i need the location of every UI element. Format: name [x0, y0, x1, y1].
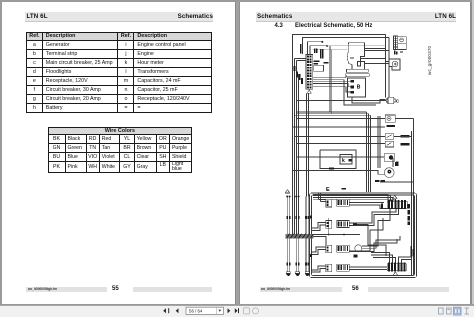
terminal strip b: [306, 55, 313, 94]
right page footer: [260, 287, 342, 292]
transformer row 4: [326, 264, 350, 272]
circuit breaker f: [385, 134, 409, 140]
wire: row1 riser: [319, 193, 321, 202]
horn e: [386, 59, 400, 70]
right page: [239, 2, 470, 304]
wire: strip to hour meter: [365, 48, 386, 50]
right page header: [256, 12, 456, 22]
right layout icons: [439, 307, 470, 315]
page combo: [186, 307, 224, 314]
engine j: [347, 43, 364, 70]
hour meter assembly k: terminal grid: [394, 36, 407, 50]
wire colors table: [48, 127, 193, 174]
wire row2 stair: [349, 209, 396, 224]
node a label triangle: [307, 90, 311, 94]
svg-text:56 / 64: 56 / 64: [189, 308, 203, 313]
main breaker c (round): [375, 158, 398, 182]
wire: panel risers: [329, 46, 331, 112]
svg-text:B: B: [357, 85, 361, 91]
dark pin column right of comb: [408, 204, 410, 225]
svg-text:k: k: [342, 158, 345, 164]
svg-text:E: E: [326, 187, 330, 193]
wire rect around k box: [320, 150, 356, 169]
hour meter box k: [340, 155, 352, 165]
small junction box right of strip: [314, 65, 324, 71]
wire: enclosure left bus and top edge: [293, 35, 386, 235]
component C: [386, 97, 400, 103]
wire stair bundle into lower comb: [371, 253, 390, 263]
wire: loop from box B to C: [352, 97, 386, 103]
sidebar vertical label: [426, 74, 428, 76]
mid vertical bus: [366, 112, 368, 192]
bottom toolbar: [0, 305, 474, 317]
transformer row 1: [326, 199, 350, 207]
dark bars on right bus: [410, 246, 414, 256]
wire: long stairs mid box E: [357, 225, 386, 257]
wire: row left stubs: [312, 223, 326, 229]
left page footer: [26, 287, 107, 292]
transformer row 2: [326, 221, 357, 229]
receptacle o (dark): [384, 154, 398, 166]
ref/description table: [26, 32, 212, 113]
wire row4 to connector B: [349, 266, 387, 268]
connector comb b upper: [387, 195, 407, 209]
wires strip to box B: [313, 78, 346, 80]
svg-text:C: C: [396, 98, 400, 103]
first page btn: [163, 308, 178, 313]
wires cable to box E: [314, 234, 329, 236]
transformer coil stripes: [339, 200, 341, 205]
bus wires into box E: [313, 194, 388, 201]
engine control box B: [348, 78, 366, 97]
engine flange bars: [347, 69, 369, 72]
hour meter dial: [398, 37, 407, 43]
wire color labels near strip: [294, 44, 329, 84]
left page: [2, 2, 235, 304]
cable bundle: [286, 234, 314, 239]
wire row1 to connector: [349, 202, 384, 204]
dark bar left of comb: [381, 203, 383, 208]
connector comb b lower: [387, 263, 406, 276]
pins under meter: [394, 51, 403, 55]
wire: strip bottom down to floodlights: [307, 94, 309, 197]
transformer row 3: [326, 245, 362, 258]
wire row3 stair: [362, 236, 400, 248]
wire: inner enclosure top: [303, 38, 390, 55]
grayed icons: [244, 307, 259, 313]
box E double border: [310, 193, 417, 278]
wire: verticals from hour meter down: [385, 35, 387, 98]
circuit breaker g: [385, 141, 409, 147]
wire: strip top to engine: [308, 42, 322, 55]
floodlight label d: [285, 190, 289, 194]
right bus: [411, 131, 413, 275]
wire: right column enclosure bottom: [380, 181, 414, 183]
long feeder wires: [296, 100, 386, 102]
receptacle e (120V): [385, 115, 395, 127]
floodlight wires: [286, 196, 309, 276]
wire: engine to right: [361, 58, 387, 60]
floodlight plugs: [286, 272, 309, 276]
left page header: [25, 12, 213, 22]
